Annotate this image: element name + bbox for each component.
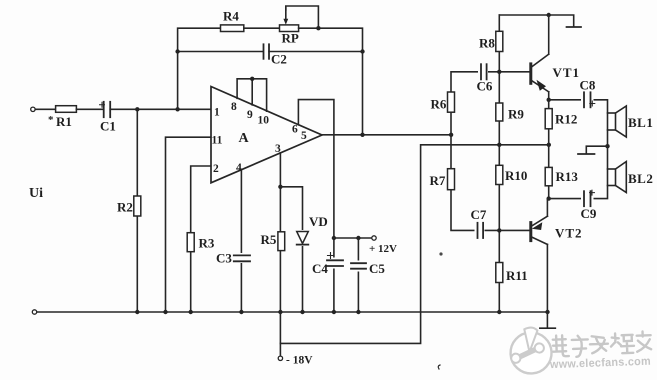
wire R2 column — [136, 109, 138, 312]
stray ink dot — [439, 252, 442, 255]
svg-text:9: 9 — [247, 109, 253, 121]
svg-text:3: 3 — [275, 143, 281, 155]
svg-text:BL1: BL1 — [628, 115, 653, 130]
speaker BL2 — [608, 169, 616, 186]
wire between speakers — [607, 130, 609, 169]
svg-text:C6: C6 — [477, 79, 493, 94]
node C5 top — [356, 236, 360, 240]
node C6/R8/R9 — [497, 70, 501, 74]
node input/R2 junction — [135, 107, 139, 111]
pin 3 wire / R5 column — [279, 153, 281, 358]
resistor R8 — [496, 31, 503, 51]
capacitor C1 — [103, 102, 105, 117]
capacitor C9 — [581, 191, 594, 207]
RP wiper arrow — [286, 6, 319, 28]
resistor R1 — [56, 106, 77, 113]
wire R4 to RP — [244, 27, 280, 29]
node -18V line R9/R10 — [497, 143, 501, 147]
watermark logo small circle right — [534, 343, 544, 353]
node output/feedback — [360, 133, 364, 137]
svg-text:6: 6 — [292, 124, 298, 136]
capacitor C2 — [263, 44, 265, 59]
wire C6 line — [451, 72, 531, 135]
resistor R3 — [187, 233, 194, 252]
svg-text:C9: C9 — [581, 206, 597, 221]
node speaker mid — [605, 144, 609, 148]
node rail R5 — [278, 310, 282, 314]
node rail pin11 — [163, 310, 167, 314]
node C2 right on feedback vertical — [360, 49, 364, 53]
svg-text:R4: R4 — [223, 9, 239, 24]
node rail R11 — [497, 310, 501, 314]
svg-text:R11: R11 — [506, 268, 528, 283]
stray ink mark — [438, 365, 440, 369]
chassis ground below VT2 — [540, 327, 555, 329]
input terminal — [31, 107, 35, 111]
node -18V line R12/R13 — [547, 143, 551, 147]
svg-text:11: 11 — [212, 135, 223, 147]
svg-text:R8: R8 — [479, 36, 495, 51]
resistor R6 — [448, 92, 455, 112]
resistor R10 — [496, 165, 503, 184]
C9 polarity mark — [590, 190, 595, 195]
watermark — [509, 327, 552, 375]
svg-text:R3: R3 — [199, 236, 215, 251]
wire R12/R13 column — [548, 100, 550, 199]
C4 polarity mark — [328, 253, 334, 259]
svg-text:*: * — [48, 114, 54, 126]
resistor R2 — [134, 196, 141, 216]
svg-text:C5: C5 — [369, 261, 385, 276]
resistor R4 — [221, 25, 244, 32]
node pin9 top — [250, 77, 254, 81]
svg-text:1: 1 — [214, 107, 220, 119]
svg-text:R12: R12 — [555, 112, 577, 127]
wire VT2 ground stub — [546, 312, 548, 328]
wire VD branch — [280, 187, 302, 312]
wire R8 column — [498, 15, 500, 233]
diode VD — [295, 230, 310, 246]
svg-text:C4: C4 — [312, 261, 328, 276]
svg-text:C1: C1 — [100, 119, 116, 134]
ground rail terminal — [32, 310, 36, 314]
chassis ground top right — [567, 26, 582, 28]
svg-text:R9: R9 — [508, 107, 524, 122]
watermark logo small circle left — [511, 353, 521, 363]
op-amp U A triangle — [211, 87, 322, 183]
svg-text:2: 2 — [213, 163, 219, 175]
wire C2 right — [269, 51, 363, 53]
speaker BL1 — [608, 113, 616, 130]
svg-text:R7: R7 — [430, 173, 446, 188]
node input/feedback junction — [175, 107, 179, 111]
pin 11 wire — [166, 137, 211, 312]
node rail VT2 — [545, 310, 549, 314]
svg-text:R1: R1 — [56, 114, 72, 129]
chassis ground speakers — [578, 153, 595, 155]
watermark logo wedge — [524, 327, 538, 352]
wire C1 to pin1 — [110, 108, 211, 110]
node C4 top / +12V — [332, 236, 336, 240]
watermark chinese text — [553, 331, 652, 357]
resistor R11 — [496, 263, 503, 283]
+12V terminal — [372, 236, 376, 240]
node rail C3 — [239, 310, 243, 314]
node rail R2 — [135, 310, 139, 314]
wire R7 column — [451, 135, 531, 231]
wire mid ground — [586, 146, 607, 153]
pins 8 9 10 wires — [237, 79, 267, 111]
capacitor C7 — [475, 223, 485, 239]
wire C5 column — [357, 238, 359, 312]
wire top rail — [499, 15, 573, 27]
svg-text:10: 10 — [258, 115, 270, 127]
svg-text:R5: R5 — [261, 232, 277, 247]
watermark logo circle — [510, 331, 553, 374]
svg-text:R2: R2 — [117, 200, 133, 215]
capacitor C8 — [581, 92, 594, 108]
svg-text:VT2: VT2 — [555, 226, 583, 241]
resistor R7 — [448, 169, 455, 190]
wire feedback left vertical — [178, 28, 221, 109]
resistor R5 — [278, 232, 285, 251]
wire C9 line — [549, 186, 608, 199]
svg-text:4: 4 — [236, 162, 242, 174]
-18V terminal — [278, 356, 282, 360]
node rail C4 — [332, 310, 336, 314]
svg-text:- 18V: - 18V — [286, 355, 313, 367]
svg-text:C2: C2 — [271, 52, 287, 67]
wire R11 column — [498, 233, 500, 313]
svg-text:R10: R10 — [505, 168, 527, 183]
node output R6/R7 — [449, 133, 453, 137]
node VT1 emitter — [547, 98, 551, 102]
svg-text:R13: R13 — [556, 169, 579, 184]
node rail VD — [300, 310, 304, 314]
resistor R9 — [496, 103, 503, 121]
pin 2 wire — [191, 166, 211, 312]
wire C8 line — [549, 100, 608, 113]
wire R1 to C1 — [76, 108, 102, 110]
node RP right / R4 line — [316, 26, 320, 30]
wire +12V line — [334, 237, 372, 239]
C8 polarity mark — [590, 101, 595, 106]
svg-text:5: 5 — [301, 130, 307, 142]
node C7/R10/R11 — [497, 228, 501, 232]
resistor R12 — [545, 109, 552, 129]
pin 4 wire / C3 column — [240, 170, 242, 312]
wire -18V branch — [280, 145, 548, 344]
svg-text:VT1: VT1 — [553, 65, 581, 80]
capacitor C6 — [478, 64, 488, 80]
watermark logo bar — [516, 348, 538, 358]
svg-text:A: A — [239, 131, 250, 146]
svg-text:8: 8 — [231, 101, 237, 113]
capacitor C5 — [352, 261, 365, 272]
svg-text:Ui: Ui — [29, 186, 43, 201]
wire RP to right corner — [299, 28, 363, 135]
svg-text:RP: RP — [282, 31, 299, 46]
resistor R13 — [545, 167, 552, 185]
svg-text:C7: C7 — [471, 207, 487, 222]
node top rail VT1 collector — [547, 13, 551, 17]
C1 polarity mark — [100, 102, 105, 107]
capacitor C3 — [237, 253, 246, 263]
svg-text:C3: C3 — [216, 251, 232, 266]
wire bottom rail — [37, 311, 548, 313]
transistor VT1 — [529, 64, 532, 83]
wire C2 line left — [178, 51, 263, 53]
svg-text:C8: C8 — [580, 78, 596, 93]
node rail C5 — [356, 310, 360, 314]
node C2 left — [175, 49, 179, 53]
svg-text:www.elecfans.com: www.elecfans.com — [549, 356, 651, 372]
svg-text:VD: VD — [309, 214, 328, 229]
node R13/C9/VT2 — [547, 196, 551, 200]
node pin3 branch — [278, 185, 282, 189]
potentiometer RP — [280, 25, 299, 32]
node rail R3 — [189, 310, 193, 314]
svg-text:BL2: BL2 — [628, 171, 653, 186]
wire op-amp output — [322, 134, 451, 136]
svg-text:+ 12V: + 12V — [369, 243, 397, 255]
svg-text:R6: R6 — [431, 97, 447, 112]
wire input to R1 — [35, 108, 55, 110]
transistor VT2 — [529, 223, 532, 241]
capacitor C4 — [328, 258, 340, 269]
pin 6 bypass wire — [298, 100, 334, 312]
